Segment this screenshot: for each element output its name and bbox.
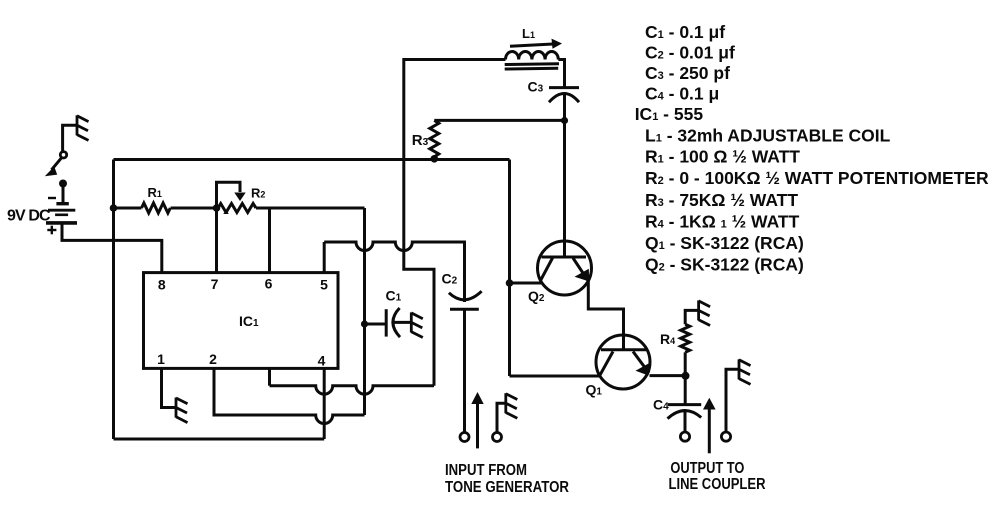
svg-text:L1 - 32mh ADJUSTABLE COIL: L1 - 32mh ADJUSTABLE COIL [645, 126, 891, 146]
svg-text:C1 - 0.1 μf: C1 - 0.1 μf [645, 22, 725, 42]
svg-text:R2 - 0 - 100KΩ ½ WATT POTENTIO: R2 - 0 - 100KΩ ½ WATT POTENTIOMETER [645, 168, 989, 188]
svg-text:C4 - 0.1 μ: C4 - 0.1 μ [645, 84, 719, 104]
svg-text:OUTPUT TO: OUTPUT TO [670, 460, 744, 477]
svg-text:IC1 - 555: IC1 - 555 [635, 104, 704, 124]
svg-text:R3 - 75KΩ ½ WATT: R3 - 75KΩ ½ WATT [645, 190, 798, 210]
svg-text:8: 8 [158, 277, 166, 293]
svg-text:TONE GENERATOR: TONE GENERATOR [445, 479, 569, 496]
svg-text:R1 - 100 Ω ½ WATT: R1 - 100 Ω ½ WATT [645, 147, 800, 167]
svg-text:Q2 - SK-3122 (RCA): Q2 - SK-3122 (RCA) [645, 255, 804, 275]
svg-text:7: 7 [211, 276, 219, 292]
svg-text:5: 5 [320, 277, 328, 293]
svg-text:4: 4 [318, 352, 326, 368]
svg-text:2: 2 [209, 351, 217, 367]
svg-text:LINE COUPLER: LINE COUPLER [669, 476, 766, 493]
svg-text:INPUT FROM: INPUT FROM [445, 462, 527, 479]
svg-text:Q1 - SK-3122 (RCA): Q1 - SK-3122 (RCA) [645, 233, 804, 253]
svg-text:1: 1 [157, 351, 165, 367]
svg-text:9V DC: 9V DC [7, 208, 51, 225]
svg-text:6: 6 [265, 276, 273, 292]
